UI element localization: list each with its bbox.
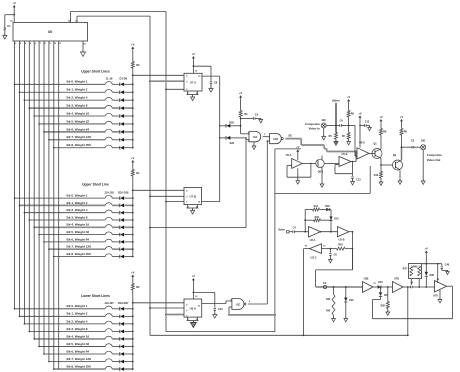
svg-text:J30: J30 [421, 140, 426, 143]
wire box top edge [275, 148, 301, 150]
svg-text:D30: D30 [325, 205, 330, 208]
bus wire bit5 [38, 45, 40, 346]
svg-text:U3B: U3B [364, 277, 369, 280]
IC U7-A [184, 73, 202, 91]
diode D33 [378, 285, 381, 288]
wire bit8 row group2 [54, 256, 106, 258]
ground under U7-B [191, 211, 195, 215]
wire U3-A output right [202, 303, 226, 305]
wire net16 vertical x150 [149, 16, 151, 335]
wire bit4 row group3 [34, 338, 105, 340]
wire U7-A pin3 from x166 [165, 88, 167, 90]
U6 ground pin stub [82, 41, 84, 52]
bus wire bit1 [19, 45, 21, 316]
wire diode-bus g3 b4 [124, 338, 133, 340]
node bit1 g2 [19, 205, 21, 207]
junction g3 b1 [132, 315, 134, 317]
wire R10 to ground [380, 178, 382, 182]
wire bit1 row group3 [20, 315, 106, 317]
svg-text:Bit 1, Weight 2: Bit 1, Weight 2 [67, 201, 88, 205]
svg-text:U1B: U1B [273, 139, 278, 141]
wire R11 to D30 [320, 209, 327, 211]
jumper J2 [105, 90, 112, 93]
node bit2 g2 [24, 212, 26, 214]
wire U5-A out to Q6-B [302, 162, 316, 164]
svg-text:+V: +V [192, 274, 196, 278]
svg-text:U7 B: U7 B [190, 194, 196, 198]
jumper J6 [105, 121, 112, 124]
wire bit3 row group1 [29, 107, 105, 109]
svg-text:Bit 4, Weight 16: Bit 4, Weight 16 [67, 111, 90, 115]
Q6-B collector stub [321, 156, 323, 161]
wire R12 to x331 [321, 219, 332, 221]
wire jumper-diode g2 b2 [112, 212, 119, 214]
svg-text:Lower Short Lines: Lower Short Lines [81, 294, 110, 298]
svg-text:Bit 7, Weight 128: Bit 7, Weight 128 [67, 245, 92, 249]
svg-text:Video: Video [332, 99, 340, 103]
resistor R11 feedback [305, 209, 312, 211]
junction g1 b3 [132, 107, 134, 109]
jumper J18 [105, 254, 112, 257]
node bit0 g1 [14, 84, 16, 86]
wire U6 pin14 to +V [13, 9, 15, 23]
wire bit0 row group2 [15, 197, 106, 199]
IC U7-B [184, 187, 202, 204]
ground under C6 [329, 260, 333, 263]
junction g3 b8 [132, 368, 134, 370]
wire to C4 [289, 231, 293, 233]
capacitor C5 [252, 117, 254, 119]
jumper J23 [105, 336, 112, 339]
wire jumper-diode g2 b3 [112, 219, 119, 221]
op-amp U5-A [292, 159, 303, 169]
ground under C8 [209, 89, 213, 93]
wire jumper-diode g2 b0 [112, 197, 119, 199]
U6 pin 6 stub [33, 41, 35, 45]
junction g2 b2 [132, 212, 134, 214]
wire group2 out to U7-B pin1 [133, 189, 184, 191]
svg-text:+V: +V [131, 42, 135, 46]
wire C1 to ground [4, 30, 6, 36]
wire bit5 row group1 [39, 123, 105, 125]
svg-text:Bit 5, Weight 32: Bit 5, Weight 32 [67, 119, 90, 123]
wire diode-bus g2 b0 [124, 197, 133, 199]
diode D13 [119, 218, 121, 222]
svg-text:Bit 0, Weight 1: Bit 0, Weight 1 [67, 304, 88, 308]
diode D30 [326, 208, 329, 211]
ground for C48 [446, 272, 449, 275]
svg-text:+V: +V [379, 115, 383, 119]
wire jumper-diode g1 b4 [112, 115, 119, 117]
resistor R6 [400, 129, 403, 136]
svg-text:Composite: Composite [305, 122, 320, 126]
wire bit1 row group1 [20, 91, 106, 93]
svg-text:R36: R36 [381, 306, 386, 308]
junction g3 b3 [132, 330, 134, 332]
wire jumper-diode g1 b2 [112, 99, 119, 101]
svg-text:+V: +V [347, 95, 351, 99]
wire diode-bus g2 b2 [124, 212, 133, 214]
diode D7 [119, 130, 121, 134]
wire D28 to R4 node [230, 125, 241, 127]
node bit8 g2 [53, 256, 55, 258]
ground under R5 [334, 142, 338, 146]
ground for C5 [259, 120, 263, 123]
svg-text:7: 7 [188, 93, 189, 95]
wire diode-bus g3 b6 [124, 353, 133, 355]
U6 pin 10 stub [53, 41, 55, 45]
svg-text:Bit 5, Weight 32: Bit 5, Weight 32 [67, 230, 90, 234]
wire group1 out to U7-A pin1 [133, 74, 184, 76]
jumper J27 [105, 366, 112, 369]
wire diode-bus g3 b5 [124, 345, 133, 347]
wire R8 to +V [380, 123, 382, 129]
wire R4 down to gate input [240, 117, 242, 134]
wire diode-bus g1 b7 [124, 139, 133, 141]
ground under U7-A [191, 97, 195, 101]
wire U7-B output right [202, 201, 220, 203]
wire to C10 [193, 291, 214, 293]
wire D32 ground [345, 302, 347, 319]
svg-text:R47: R47 [403, 267, 408, 270]
bus wire bit7 [48, 45, 50, 362]
resistor R5 video termination [335, 133, 338, 140]
wire R7 to ground [348, 139, 350, 142]
svg-text:R11: R11 [314, 205, 319, 208]
wire R4 node to U1-A input1 [241, 133, 249, 135]
svg-text:J19-J27: J19-J27 [104, 301, 114, 305]
jumper J15 [105, 232, 112, 235]
wire U5-B out join thick path [351, 161, 356, 163]
jumper J3 [105, 97, 112, 100]
wire U3-A out to U1-C input1 [225, 301, 227, 304]
node bit7 g2 [48, 248, 50, 250]
svg-text:R12: R12 [315, 216, 320, 219]
svg-text:D29: D29 [230, 142, 235, 145]
capacitor C48 [441, 264, 443, 266]
node bit6 g1 [43, 131, 45, 133]
junction g3 b6 [132, 353, 134, 355]
jumper J4 [105, 105, 112, 108]
svg-text:D32: D32 [349, 300, 354, 302]
resistor R10 [380, 172, 383, 179]
ground under U5-A [296, 181, 300, 184]
wire diode-bus g3 b3 [124, 330, 133, 332]
jumper J17 [105, 247, 112, 250]
svg-text:C10: C10 [218, 308, 223, 311]
wire diode-bus g1 b2 [124, 99, 133, 101]
diode D22 [119, 330, 121, 334]
wire diode-bus g2 b3 [124, 219, 133, 221]
svg-text:Video: Video [278, 227, 285, 231]
wire bias node into U8-A [354, 126, 356, 157]
jumper J10 [105, 195, 112, 198]
wire bit2 row group1 [24, 99, 105, 101]
svg-text:U2 C: U2 C [311, 255, 317, 259]
svg-text:U1A: U1A [253, 136, 258, 139]
resistor R9 [347, 111, 350, 118]
svg-text:Bit 8, Weight 256: Bit 8, Weight 256 [67, 143, 92, 147]
diode D36 [425, 264, 427, 272]
wire diode-bus g3 b1 [124, 315, 133, 317]
node bit3 g2 [29, 219, 31, 221]
svg-text:Q6 B: Q6 B [318, 170, 324, 173]
wire jumper-diode g2 b6 [112, 241, 119, 243]
svg-text:Bit 2, Weight 4: Bit 2, Weight 4 [67, 319, 88, 323]
svg-text:C12: C12 [365, 121, 370, 124]
junction g2 b4 [132, 226, 134, 228]
svg-text:U8 A: U8 A [359, 141, 365, 145]
jumper J8 [105, 137, 112, 140]
svg-text:U3 A: U3 A [190, 306, 196, 310]
capacitor C14 [410, 286, 412, 288]
junction g3 b4 [132, 338, 134, 340]
U6 pin 3 stub [19, 41, 21, 45]
wire U2-C input from R43 [322, 248, 337, 250]
svg-text:+V: +V [131, 270, 135, 274]
wire to C5 [241, 118, 254, 120]
wire bit8 row group3 [54, 368, 106, 370]
diode D8 [119, 138, 121, 142]
wire U1-A power stub to ground [253, 142, 255, 146]
capacitor C10 [214, 308, 216, 310]
diode D4 [119, 106, 121, 110]
svg-text:1: 1 [248, 132, 249, 134]
wire jumper-diode g1 b8 [112, 147, 119, 149]
svg-text:Bit 6, Weight 64: Bit 6, Weight 64 [67, 127, 90, 131]
wire U2-A out to U2-B [321, 231, 338, 233]
wire U5-A ground stub [297, 168, 299, 180]
ground under U6 [81, 52, 86, 56]
svg-text:Bit 0, Weight 1: Bit 0, Weight 1 [67, 80, 88, 84]
wire bit4 row group1 [34, 115, 105, 117]
wire jumper-diode g1 b3 [112, 107, 119, 109]
wire Q6-B to U5-B input [324, 162, 339, 164]
op-amp U7-B2 [393, 282, 404, 293]
ground under R36 [386, 312, 390, 315]
svg-text:+V: +V [239, 91, 243, 95]
jumper J26 [105, 359, 112, 362]
capacitor C2 [411, 146, 413, 148]
U5-B feedback loop wire [335, 164, 339, 166]
wire group3 out to U3-A pin1 [133, 302, 184, 304]
svg-text:U2 B: U2 B [339, 237, 345, 241]
wire +V to U7-A top [192, 60, 194, 74]
junction R44 [333, 286, 335, 288]
diode D20 [119, 315, 121, 319]
wire C48 to ground [441, 269, 443, 271]
jumper J1 [105, 82, 112, 85]
diode D34 feedback [380, 286, 382, 288]
capacitor C8 [210, 81, 212, 83]
wire jumper-diode g2 b7 [112, 248, 119, 250]
wire vertical x219.7 [219, 76, 221, 202]
svg-text:Bit 2, Weight 4: Bit 2, Weight 4 [67, 96, 88, 100]
wire bit8 row group1 [54, 147, 106, 149]
wire diode-bus g2 b5 [124, 234, 133, 236]
wire diode-bus g1 b1 [124, 91, 133, 93]
connector C3 on chain [323, 285, 326, 288]
junction g2 b8 [132, 256, 134, 258]
svg-text:8: 8 [196, 207, 197, 209]
wire R43 to x352.5 [345, 248, 353, 250]
wire x150 bottom rail y335.3 [150, 334, 408, 336]
wire R9 to node [348, 117, 350, 126]
transistor Q2 [393, 160, 403, 170]
svg-text:+V: +V [192, 52, 196, 56]
wire U2-C output left [304, 248, 310, 250]
wire U3-A pin2 from x150 [149, 307, 151, 309]
wire jumper-diode g1 b5 [112, 123, 119, 125]
jumper J25 [105, 351, 112, 354]
node bit3 g1 [29, 107, 31, 109]
svg-text:+V: +V [131, 156, 135, 160]
diode D17 [119, 247, 121, 251]
wire J10 down to ground [422, 150, 424, 181]
capacitor C6 [329, 249, 331, 253]
node bit4 g1 [33, 115, 35, 117]
diode D21 [119, 322, 121, 326]
collect wire group2 [132, 190, 134, 256]
svg-text:8: 8 [196, 319, 197, 321]
node bit5 g1 [38, 123, 40, 125]
wire diode-bus g2 b7 [124, 248, 133, 250]
svg-text:Bit 4, Weight 16: Bit 4, Weight 16 [67, 223, 90, 227]
wire jumper-diode g3 b2 [112, 323, 119, 325]
wire jumper-diode g3 b7 [112, 361, 119, 363]
svg-text:Bit 3, Weight 8: Bit 3, Weight 8 [67, 327, 88, 331]
U5-A feedback loop wire [287, 165, 292, 167]
diode D11 [119, 204, 121, 208]
svg-text:Bit 1, Weight 2: Bit 1, Weight 2 [67, 312, 88, 316]
Q2 collector wire thick [396, 160, 402, 163]
capacitor C9 input coupling [339, 124, 341, 126]
svg-text:U7B: U7B [394, 277, 399, 280]
svg-text:R48: R48 [413, 265, 418, 268]
wire U7-A2 plus input from divider [437, 264, 439, 283]
bus wire bit2 [23, 45, 25, 324]
wire thick segment y314.9 [229, 314, 275, 316]
wire feedback bottom y318.7 [373, 318, 453, 320]
diode D10 [119, 196, 121, 200]
svg-text:8: 8 [249, 301, 250, 303]
wire diode-bus g1 b6 [124, 131, 133, 133]
svg-text:+V: +V [400, 115, 404, 119]
svg-text:C48: C48 [445, 263, 450, 266]
node bit7 g3 [48, 361, 50, 363]
U6 pin 5 stub [28, 41, 30, 45]
wire to C12 [360, 125, 364, 127]
wire U7-A pin2 from x150 [149, 80, 151, 82]
junction g2 b5 [132, 234, 134, 236]
wire bit7 row group2 [49, 248, 105, 250]
capacitor C12 [364, 124, 366, 126]
junction g2 b7 [132, 248, 134, 250]
bus wire bit4 [33, 45, 35, 339]
svg-text:D10-D18: D10-D18 [118, 191, 129, 195]
wire R44 ground [333, 315, 335, 319]
wire D36 to chain [425, 276, 427, 287]
diode D15 [119, 233, 121, 237]
wire bit6 row group1 [44, 131, 105, 133]
wire diode-bus g3 b0 [124, 308, 133, 310]
svg-text:U1C: U1C [236, 304, 241, 306]
wire R6 to +V [401, 123, 403, 129]
resistor R8 [380, 129, 383, 136]
wire U7-A output right [202, 75, 220, 77]
jumper J19 [105, 306, 112, 309]
wire jumper-diode g1 b1 [112, 91, 119, 93]
diode D24 [119, 345, 121, 349]
Q6-B emitter wire [321, 166, 323, 184]
wire jumper-diode g3 b1 [112, 315, 119, 317]
svg-text:D31: D31 [334, 217, 339, 220]
diode D14 [119, 226, 121, 230]
wire U8-A out to Q1 base [369, 153, 375, 155]
wire jumper-diode g1 b6 [112, 131, 119, 133]
junction g2 b0 [132, 197, 134, 199]
junction g1 b5 [132, 123, 134, 125]
junction g1 b2 [132, 99, 134, 101]
ground under R44 [332, 319, 336, 322]
node bit6 g3 [43, 353, 45, 355]
wire diode-bus g2 b8 [124, 256, 133, 258]
wire bit6 row group3 [44, 353, 105, 355]
wire diode-bus g3 b8 [124, 368, 133, 370]
wire net15 vertical x166 [165, 12, 167, 332]
svg-text:Video Out: Video Out [427, 158, 441, 162]
svg-text:C13: C13 [356, 179, 361, 182]
wire diode-bus g1 b4 [124, 115, 133, 117]
wire R47 down [410, 279, 412, 286]
svg-text:J1-J9: J1-J9 [106, 77, 113, 81]
op-amp U2-C pointing left [310, 244, 322, 254]
op-amp U7-A2 comparator [435, 281, 447, 293]
wire D33 to U7-B2 [381, 286, 392, 288]
wire +V down [425, 254, 427, 264]
wire y269.9 link [316, 269, 353, 271]
wire diode-bus g3 b7 [124, 361, 133, 363]
svg-text:C2: C2 [411, 138, 415, 142]
U6 pin 2 stub [14, 41, 16, 45]
resistor R36 [387, 287, 389, 302]
feedback wire up x305.2 [304, 210, 306, 232]
wire U3-A pin3 from x166 thick [165, 314, 167, 316]
svg-text:R44: R44 [326, 298, 331, 301]
diode D27 [119, 367, 121, 371]
U7-B bottom pins [187, 205, 189, 208]
wire bit5 row group3 [39, 345, 105, 347]
capacitor C13 [352, 174, 354, 176]
wire D30 to x331 [330, 209, 331, 211]
junction g2 b6 [132, 241, 134, 243]
diode D16 [119, 240, 121, 244]
junction g1 b7 [132, 139, 134, 141]
gate U1-C [232, 299, 244, 310]
wire +V to U3-A top [192, 282, 194, 299]
IC U3-A [184, 299, 202, 317]
wire x150 branch y227.6 [149, 227, 151, 229]
svg-text:D33: D33 [378, 282, 383, 284]
wire jumper-diode g2 b4 [112, 226, 119, 228]
svg-text:D28: D28 [229, 122, 234, 125]
wire bit7 row group3 [49, 361, 105, 363]
wire bit1 row group2 [20, 204, 106, 206]
jumper J13 [105, 217, 112, 220]
bus wire bit3 [28, 45, 30, 331]
wire C13 ground [352, 179, 354, 182]
U6 pin 4 stub [23, 41, 25, 45]
